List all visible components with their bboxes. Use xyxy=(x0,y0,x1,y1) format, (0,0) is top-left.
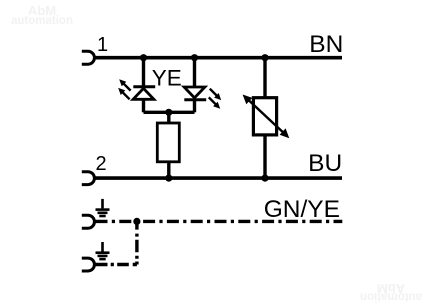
LED D1 light arrows xyxy=(118,79,130,99)
LED D1 (left, pointing up) xyxy=(133,87,155,113)
wire: right LED branch vertical xyxy=(193,58,196,87)
wire: LED bottom rail xyxy=(144,111,195,114)
ground symbol 1 xyxy=(96,199,110,216)
wire: left LED branch vertical xyxy=(142,58,145,87)
svg-text:GN/YE: GN/YE xyxy=(264,196,340,223)
ground symbol 2 xyxy=(96,242,110,259)
svg-text:2: 2 xyxy=(95,153,106,175)
svg-text:automation: automation xyxy=(360,291,422,303)
terminal 4 (earth) xyxy=(82,258,95,271)
node on line1 at varistor branch xyxy=(261,54,268,61)
wire: junction to resistor xyxy=(167,112,170,123)
wire: vertical dash-dot to terminal 4 branch xyxy=(135,221,138,264)
terminal 3 (earth) xyxy=(82,215,95,228)
svg-text:BN: BN xyxy=(309,31,343,58)
wire BN (line 1) xyxy=(96,56,343,60)
terminal 2 xyxy=(82,172,95,185)
varistor Z1 xyxy=(253,98,276,135)
wire BU (line 2) xyxy=(96,176,343,180)
node on GN/YE line xyxy=(133,218,140,225)
wire: resistor to line 2 xyxy=(167,162,170,178)
LED D2 (right, pointing down) xyxy=(184,87,206,112)
node on line1 at left LED branch xyxy=(140,54,147,61)
svg-text:BU: BU xyxy=(308,150,342,177)
terminal 1 xyxy=(82,51,95,64)
node: LED midpoint junction xyxy=(165,109,172,116)
svg-text:YE: YE xyxy=(152,65,182,90)
label YE (with white backing) xyxy=(148,69,186,88)
svg-text:1: 1 xyxy=(97,34,108,56)
watermark top-left xyxy=(11,3,73,27)
wire: varistor branch vertical xyxy=(263,58,266,178)
watermark bottom-right xyxy=(360,281,422,303)
svg-text:automation: automation xyxy=(11,15,73,27)
node on line1 at right LED branch xyxy=(191,54,198,61)
node on line2 at resistor xyxy=(165,175,172,182)
LED D2 light arrows xyxy=(209,89,221,109)
wire GN/YE dash-dot horizontal xyxy=(96,220,343,223)
node on line2 at varistor xyxy=(261,175,268,182)
resistor R1 xyxy=(157,123,179,162)
wire: terminal 4 dash-dot horizontal xyxy=(96,263,137,266)
varistor double arrow xyxy=(243,95,290,139)
